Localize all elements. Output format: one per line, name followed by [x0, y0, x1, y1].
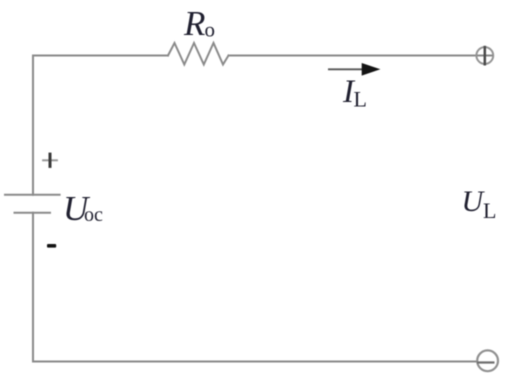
- svg-text:L: L: [483, 198, 496, 223]
- svg-text:L: L: [354, 87, 367, 112]
- svg-text:oc: oc: [84, 204, 103, 226]
- svg-text:R: R: [183, 4, 205, 43]
- svg-text:U: U: [462, 185, 486, 218]
- svg-text:o: o: [205, 18, 216, 42]
